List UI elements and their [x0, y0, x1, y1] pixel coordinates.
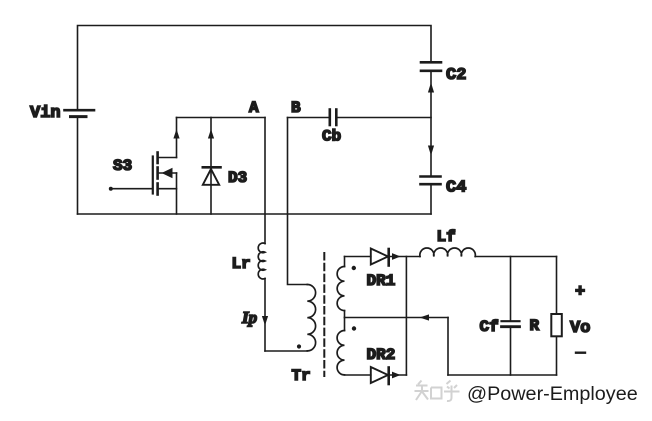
triangle (pointing up)	[203, 169, 219, 185]
svg-text:Cf: Cf	[480, 318, 499, 336]
Ip arrow (current direction)	[262, 316, 268, 326]
wire return corner down	[447, 318, 449, 376]
wire top rail	[78, 26, 432, 110]
wire Cb to right vertical	[337, 117, 431, 119]
transformer core dashed line	[323, 253, 325, 376]
current arrow after DR1	[392, 253, 401, 260]
transistor S3 (MOSFET)	[109, 118, 180, 215]
capacitor C4	[421, 177, 441, 185]
gate wire	[111, 188, 153, 190]
inductor Lr	[258, 243, 265, 279]
svg-text:A: A	[249, 99, 259, 117]
watermark 知乎 (drawn glyphs)	[415, 381, 460, 402]
svg-text:R: R	[530, 317, 540, 335]
drain vertical	[176, 118, 178, 158]
channel bar bottom	[156, 184, 159, 195]
wire secondary top	[345, 256, 371, 258]
svg-text:Tr: Tr	[292, 367, 311, 385]
battery Vin	[65, 110, 95, 116]
svg-text:S3: S3	[113, 157, 132, 175]
arrow up on drain	[173, 129, 179, 139]
wire output bottom rail	[448, 374, 557, 376]
svg-text:Vin: Vin	[30, 104, 61, 123]
body horizontal with arrow	[159, 172, 177, 174]
svg-text:Lf: Lf	[437, 228, 456, 246]
arrow left on return wire	[420, 314, 430, 320]
wire bottom rail	[78, 213, 432, 215]
node A vertical lower part	[264, 279, 266, 352]
svg-text:C4: C4	[446, 179, 466, 198]
wire right vertical below C4	[430, 184, 432, 214]
channel bar top	[156, 153, 159, 164]
arrow down toward C4	[428, 146, 434, 156]
svg-text:+: +	[575, 283, 585, 302]
cathode bar	[203, 166, 221, 169]
wire DR2 to junction	[389, 374, 407, 376]
transformer secondary top winding	[337, 257, 344, 318]
gate plate	[152, 157, 154, 194]
gate terminal dot	[109, 187, 113, 191]
primary polarity dot	[297, 344, 301, 348]
drain horizontal	[159, 157, 177, 159]
current arrow after DR2	[392, 372, 401, 379]
svg-text:Lr: Lr	[232, 255, 251, 273]
arrow up toward C2	[428, 83, 434, 93]
svg-text:DR1: DR1	[367, 272, 396, 290]
wire center tap return	[345, 317, 449, 319]
wire mid rail (drain to node A)	[177, 117, 266, 119]
svg-text:@Power-Employee: @Power-Employee	[467, 383, 638, 405]
label minus	[576, 352, 585, 354]
capacitor Cf	[502, 257, 520, 376]
svg-text:D3: D3	[228, 169, 247, 187]
inductor Lf	[420, 248, 476, 256]
channel bar middle	[156, 168, 159, 179]
wire DR1 to junction	[389, 256, 420, 258]
wire node B to Cb	[288, 117, 330, 119]
svg-text:C2: C2	[446, 66, 466, 85]
diode DR2	[371, 367, 389, 384]
node A vertical upper part	[264, 118, 266, 244]
diode DR1	[371, 249, 389, 266]
wire primary bottom	[265, 350, 307, 352]
svg-text:Ip: Ip	[241, 308, 257, 327]
node B vertical	[288, 118, 308, 285]
transformer secondary bottom winding	[337, 318, 344, 375]
secondary dot 1	[352, 266, 356, 270]
source horizontal	[159, 188, 177, 190]
capacitor C2	[421, 62, 441, 71]
arrow up on D3 line	[208, 129, 214, 139]
wire Lf to top right corner	[475, 256, 556, 258]
diode D3	[203, 118, 221, 215]
svg-text:DR2: DR2	[367, 346, 396, 364]
wire right vertical C2 to C4	[430, 71, 432, 176]
secondary dot 2	[352, 326, 356, 330]
wire secondary bottom	[345, 374, 371, 376]
svg-text:Vo: Vo	[570, 319, 590, 338]
svg-text:B: B	[291, 99, 301, 117]
wire rectifier output vertical	[405, 257, 407, 376]
wire left vertical below battery	[77, 118, 79, 214]
source vertical	[176, 173, 178, 214]
capacitor Cb	[330, 110, 337, 126]
svg-text:Cb: Cb	[322, 128, 341, 146]
resistor R	[551, 257, 562, 376]
transformer Tr primary winding	[307, 285, 315, 351]
